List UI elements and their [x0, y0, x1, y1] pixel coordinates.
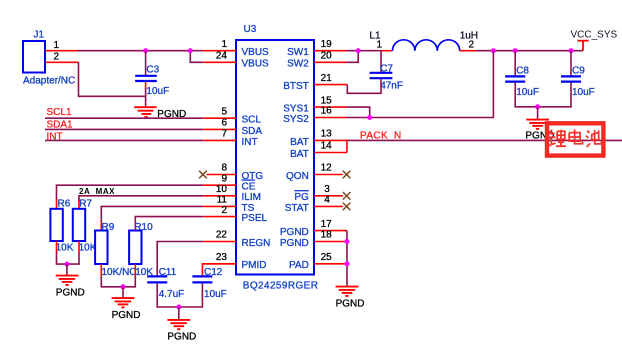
- CE overline: [242, 179, 256, 181]
- wire PGND pins riser: [346, 231, 348, 286]
- wire gnd stem C11C12: [178, 307, 180, 319]
- resistor R6: [50, 209, 62, 241]
- ground PGND under pad: [336, 287, 359, 296]
- svg-text:7: 7: [221, 129, 227, 140]
- svg-text:SCL1: SCL1: [47, 107, 72, 118]
- L1 pin 1 lead: [381, 50, 393, 52]
- wire pin24 drop vertical: [190, 51, 203, 63]
- svg-text:SCL: SCL: [242, 115, 262, 126]
- svg-text:SW1: SW1: [287, 47, 309, 58]
- svg-text:ILIM: ILIM: [242, 192, 261, 203]
- wire CE net to R6: [57, 185, 204, 200]
- no-connect X on pin 12: [343, 171, 351, 179]
- svg-text:QON: QON: [286, 171, 309, 182]
- pin 12 stub: [314, 174, 343, 176]
- svg-text:SDA: SDA: [242, 126, 263, 137]
- svg-text:3: 3: [324, 184, 330, 195]
- ground PGND under C3: [134, 107, 156, 117]
- capacitor C9: [561, 76, 581, 81]
- pin 17 stub: [314, 230, 347, 232]
- inductor L1 coil: [393, 40, 460, 51]
- svg-text:SYS1: SYS1: [283, 104, 309, 115]
- wire REGN net to C11: [157, 242, 203, 276]
- R10 bottom lead: [134, 264, 136, 278]
- J1 pin 2: [46, 61, 79, 63]
- svg-text:19: 19: [321, 39, 333, 50]
- svg-text:25: 25: [321, 252, 333, 263]
- pin 7 stub: [203, 139, 236, 141]
- svg-text:PGND: PGND: [112, 310, 141, 321]
- svg-text:PAD: PAD: [289, 260, 309, 271]
- svg-text:12: 12: [321, 163, 333, 174]
- capacitor C3 stem top: [145, 51, 147, 75]
- wire SCL1: [45, 117, 203, 119]
- svg-text:R10: R10: [134, 222, 153, 233]
- svg-text:47nF: 47nF: [380, 81, 403, 92]
- pin 10 stub: [203, 195, 236, 197]
- svg-text:CE: CE: [242, 182, 256, 193]
- pin 21 stub: [314, 84, 347, 86]
- svg-text:10uF: 10uF: [204, 289, 227, 300]
- battery text li (锂) strokes: [547, 129, 601, 146]
- pin 6 stub: [203, 128, 236, 130]
- wire C7 bottom to BTST: [347, 79, 381, 93]
- J1 pin 1: [46, 50, 78, 52]
- svg-text:PGND: PGND: [336, 298, 365, 309]
- wire SW1 to L1: [346, 50, 381, 52]
- wire C11-C12 gnd tie: [156, 306, 203, 308]
- svg-text:C8: C8: [516, 66, 529, 77]
- svg-text:23: 23: [216, 252, 228, 263]
- svg-text:6: 6: [221, 118, 227, 129]
- PG overline: [294, 190, 308, 192]
- capacitor C7: [370, 73, 393, 78]
- pin 2 stub: [203, 216, 236, 218]
- svg-text:1: 1: [221, 39, 227, 50]
- wire SYS rail to VSYS: [347, 51, 494, 118]
- wire C12 bottom: [201, 283, 203, 307]
- svg-text:PGND: PGND: [280, 238, 309, 249]
- wire R10 bottom: [134, 277, 136, 287]
- wire J1 pin2 down: [79, 62, 146, 96]
- pin 11 stub: [203, 205, 236, 207]
- svg-text:VBUS: VBUS: [242, 59, 270, 70]
- svg-text:R9: R9: [102, 222, 115, 233]
- node junction at C3 top: [143, 48, 148, 53]
- svg-text:2: 2: [221, 205, 227, 216]
- svg-text:20: 20: [321, 51, 333, 62]
- wire R9 bottom: [100, 277, 102, 287]
- battery text chi (池) strokes: [586, 130, 602, 147]
- wire C9 bottom: [570, 83, 572, 107]
- svg-text:PG: PG: [294, 192, 309, 203]
- svg-text:C12: C12: [204, 267, 223, 278]
- pin 5 stub: [203, 117, 236, 119]
- svg-text:Adapter/NC: Adapter/NC: [23, 76, 75, 87]
- svg-text:24: 24: [216, 51, 228, 62]
- L1 pin 2 lead: [460, 50, 477, 52]
- node junction pin18: [345, 239, 350, 244]
- pin 25 stub: [314, 263, 347, 265]
- no-connect X on pin 4: [343, 203, 351, 211]
- pin 15 stub: [314, 106, 347, 108]
- pin 24 stub: [203, 61, 236, 63]
- svg-text:INT: INT: [242, 137, 258, 148]
- svg-text:4.7uF: 4.7uF: [159, 289, 185, 300]
- capacitor C9 stem: [570, 51, 572, 76]
- node junction SYS: [367, 115, 372, 120]
- svg-text:PGND: PGND: [167, 332, 196, 343]
- pin 1 stub: [203, 50, 236, 52]
- svg-text:PGND: PGND: [280, 227, 309, 238]
- node junction C9 tap: [569, 48, 574, 53]
- svg-text:21: 21: [321, 73, 333, 84]
- svg-text:2: 2: [469, 40, 475, 51]
- node junction C8C9 gnd: [535, 104, 540, 109]
- wire C8-C9 gnd tie: [514, 106, 571, 108]
- svg-text:16: 16: [321, 106, 333, 117]
- pin 18 stub: [314, 241, 347, 243]
- ground PGND under R9R10: [112, 298, 135, 307]
- svg-text:14: 14: [321, 141, 333, 152]
- svg-text:C11: C11: [159, 267, 177, 278]
- svg-text:10uF: 10uF: [146, 86, 169, 97]
- R9 top lead: [100, 222, 102, 232]
- svg-text:STAT: STAT: [285, 203, 309, 214]
- node junction L1 out: [491, 48, 496, 53]
- svg-text:10K/NC: 10K/NC: [102, 267, 137, 278]
- capacitor C8 stem: [514, 51, 516, 76]
- R6 top lead: [56, 199, 58, 209]
- resistor R10: [129, 231, 141, 265]
- wire C3 to ground: [145, 88, 147, 106]
- svg-text:U3: U3: [244, 24, 257, 35]
- wire PSEL net to R10: [135, 217, 203, 223]
- svg-text:4: 4: [324, 195, 330, 206]
- R9 bottom lead: [100, 264, 102, 278]
- svg-text:1: 1: [376, 40, 382, 51]
- svg-text:C9: C9: [572, 66, 585, 77]
- R7 bottom lead: [78, 241, 80, 253]
- op-amp U1 body: IC U3 BQ24259RGER: [236, 40, 314, 275]
- pin 23 stub: [203, 263, 236, 265]
- svg-text:10uF: 10uF: [572, 87, 595, 98]
- node junction R6R7 gnd: [64, 262, 69, 267]
- wire VSYS rail: [476, 50, 583, 52]
- svg-text:J1: J1: [34, 30, 45, 41]
- wire SW2 riser: [346, 51, 358, 63]
- capacitor C7 stem: [380, 51, 382, 72]
- svg-text:BTST: BTST: [283, 81, 309, 92]
- svg-text:8: 8: [221, 163, 227, 174]
- node junction pin25: [345, 261, 350, 266]
- no-connect X on pin 3: [343, 192, 351, 200]
- capacitor C3 stem bottom: [145, 82, 147, 89]
- pin 14 stub: [314, 152, 347, 154]
- svg-text:9: 9: [221, 173, 227, 184]
- svg-text:R6: R6: [58, 199, 71, 210]
- power symbol VCC_SYS: [577, 41, 588, 51]
- capacitor C8: [505, 76, 525, 81]
- pin 13 stub: [314, 139, 347, 141]
- no-connect X on pin 8: [199, 171, 207, 179]
- R10 top lead: [134, 222, 136, 232]
- wire BAT pin14 riser: [346, 140, 348, 153]
- svg-text:10uF: 10uF: [516, 87, 539, 98]
- pin 16 stub: [314, 117, 347, 119]
- R7 top lead: [78, 200, 80, 209]
- capacitor C3: [135, 76, 157, 81]
- svg-text:10K: 10K: [56, 243, 74, 254]
- ground PGND under R6R7: [56, 276, 79, 285]
- wire BAT to battery: [346, 139, 622, 141]
- pin 4 stub: [314, 205, 343, 207]
- connector J1: [23, 41, 45, 73]
- wire SDA1: [45, 128, 203, 130]
- svg-text:PSEL: PSEL: [242, 213, 268, 224]
- wire TS net to R9: [101, 206, 203, 222]
- battery annotation box: [547, 123, 603, 155]
- node junction SW: [356, 48, 361, 53]
- svg-text:BQ24259RGER: BQ24259RGER: [243, 281, 319, 292]
- wire gnd stem C8C9: [537, 107, 539, 119]
- svg-text:13: 13: [321, 129, 333, 140]
- wire gnd stem R9R10: [122, 287, 124, 298]
- wire R6 bottom: [56, 253, 58, 265]
- svg-text:R7: R7: [79, 199, 92, 210]
- svg-text:C3: C3: [146, 64, 159, 75]
- svg-text:BAT: BAT: [290, 149, 309, 160]
- pin 8 stub: [207, 174, 236, 176]
- wire INT: [45, 139, 203, 141]
- wire C11 bottom: [156, 283, 158, 307]
- wire gnd stem R6R7: [66, 264, 68, 275]
- svg-text:VBUS: VBUS: [242, 47, 270, 58]
- svg-text:2: 2: [54, 52, 60, 63]
- svg-text:C7: C7: [380, 63, 393, 74]
- svg-text:15: 15: [321, 95, 333, 106]
- svg-text:SYS2: SYS2: [283, 114, 309, 125]
- pin 22 stub: [203, 241, 236, 243]
- svg-text:BAT: BAT: [290, 137, 309, 148]
- ground PGND under C11C12: [167, 320, 190, 329]
- svg-text:17: 17: [321, 219, 333, 230]
- svg-text:18: 18: [321, 230, 333, 241]
- wire C8 bottom: [514, 83, 516, 107]
- wire SYS1 to rail: [347, 107, 370, 117]
- svg-text:2A MAX: 2A MAX: [79, 187, 115, 196]
- pin 3 stub: [314, 195, 343, 197]
- svg-text:PGND: PGND: [56, 287, 85, 298]
- node junction C11C12 gnd: [176, 305, 181, 310]
- svg-text:SW2: SW2: [287, 59, 309, 70]
- svg-text:VCC_SYS: VCC_SYS: [571, 30, 618, 41]
- svg-text:PMID: PMID: [242, 260, 267, 271]
- svg-text:22: 22: [216, 230, 228, 241]
- resistor R7: [73, 209, 85, 241]
- capacitor C12: [192, 276, 212, 282]
- wire VBUS top rail: [77, 50, 203, 52]
- node junction R9R10 gnd: [121, 284, 126, 289]
- ground PGND under C8C9: [526, 120, 549, 129]
- node junction at pin24 branch: [188, 48, 193, 53]
- resistor R9: [95, 231, 107, 265]
- svg-text:1: 1: [54, 40, 60, 51]
- svg-text:REGN: REGN: [242, 238, 271, 249]
- svg-text:5: 5: [221, 106, 227, 117]
- wire R9-R10 gnd tie: [101, 286, 137, 288]
- node junction C8 tap: [513, 48, 518, 53]
- battery text dian (电) strokes: [569, 129, 582, 143]
- R6 bottom lead: [56, 241, 58, 253]
- wire R6-R7 gnd tie: [56, 263, 80, 265]
- wire PMID net to C12: [202, 264, 236, 276]
- pin 20 stub: [314, 61, 347, 63]
- pin 19 stub: [314, 50, 347, 52]
- svg-text:10K: 10K: [79, 243, 97, 254]
- svg-text:10: 10: [216, 184, 228, 195]
- wire ILIM net to R7: [79, 196, 203, 201]
- wire R7 bottom: [78, 253, 80, 265]
- pin 9 stub: [203, 184, 236, 186]
- capacitor C11: [147, 276, 167, 282]
